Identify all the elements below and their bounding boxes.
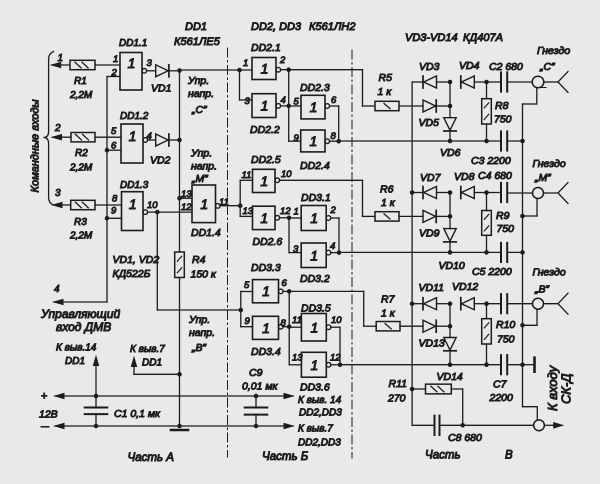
- svg-text:1: 1: [113, 54, 118, 65]
- svg-text:DD1: DD1: [185, 21, 207, 33]
- svg-text:С5 2200: С5 2200: [472, 266, 512, 278]
- svg-text:С8 680: С8 680: [448, 432, 482, 444]
- svg-text:VD7: VD7: [420, 172, 442, 184]
- svg-text:2: 2: [279, 55, 286, 66]
- svg-text:1 к: 1 к: [381, 308, 396, 320]
- svg-text:DD1: DD1: [142, 358, 162, 369]
- svg-text:„М”: „М”: [534, 172, 551, 184]
- svg-text:напр.: напр.: [189, 327, 215, 339]
- svg-text:5: 5: [111, 126, 117, 137]
- svg-text:DD2.5: DD2.5: [251, 154, 281, 166]
- svg-text:2,2М: 2,2М: [69, 163, 93, 174]
- svg-text:Часть Б: Часть Б: [262, 451, 309, 463]
- svg-text:1: 1: [129, 128, 137, 144]
- svg-text:напр.: напр.: [188, 88, 214, 100]
- svg-text:DD2.2: DD2.2: [250, 124, 280, 136]
- svg-text:3: 3: [293, 244, 299, 255]
- svg-text:R10: R10: [496, 319, 515, 331]
- svg-text:VD13: VD13: [419, 338, 445, 350]
- svg-text:К выв.7: К выв.7: [130, 344, 165, 355]
- svg-text:1: 1: [58, 53, 64, 64]
- svg-text:2,2М: 2,2М: [69, 231, 93, 242]
- svg-text:4: 4: [281, 95, 286, 106]
- svg-text:R7: R7: [381, 294, 396, 306]
- svg-text:1: 1: [310, 210, 318, 226]
- svg-text:12: 12: [181, 202, 192, 213]
- svg-text:КД522Б: КД522Б: [113, 268, 151, 280]
- svg-text:1: 1: [310, 247, 318, 263]
- svg-text:VD4: VD4: [459, 60, 480, 72]
- svg-text:750: 750: [497, 223, 515, 235]
- svg-text:С4 680: С4 680: [478, 170, 512, 182]
- svg-text:В: В: [505, 450, 513, 462]
- svg-text:4: 4: [330, 241, 335, 252]
- svg-text:13: 13: [181, 189, 192, 200]
- svg-text:R4: R4: [192, 254, 206, 266]
- svg-text:R8: R8: [495, 100, 509, 112]
- svg-text:Управляющий: Управляющий: [40, 307, 120, 321]
- svg-text:1: 1: [261, 61, 269, 77]
- svg-text:Гнездо: Гнездо: [537, 45, 570, 57]
- svg-text:12В: 12В: [39, 409, 58, 421]
- svg-text:С7: С7: [493, 379, 508, 391]
- svg-text:СК-Д: СК-Д: [559, 373, 574, 404]
- svg-text:1: 1: [243, 58, 248, 69]
- svg-text:R5: R5: [379, 72, 393, 84]
- svg-text:„В”: „В”: [191, 342, 207, 354]
- svg-text:1: 1: [309, 133, 317, 149]
- svg-text:9: 9: [111, 206, 117, 217]
- svg-text:К561ЛЕ5: К561ЛЕ5: [174, 36, 221, 48]
- svg-text:VD9: VD9: [419, 228, 440, 240]
- svg-text:9: 9: [245, 316, 251, 327]
- svg-text:напр.: напр.: [191, 161, 217, 173]
- svg-text:10: 10: [281, 169, 292, 180]
- svg-text:750: 750: [497, 334, 515, 346]
- svg-text:Гнездо: Гнездо: [533, 267, 566, 279]
- svg-text:2: 2: [54, 123, 61, 134]
- svg-text:5: 5: [244, 280, 250, 291]
- svg-text:DD1.4: DD1.4: [191, 227, 221, 239]
- svg-text:Часть: Часть: [425, 450, 461, 462]
- svg-text:1: 1: [294, 207, 299, 218]
- svg-text:VD2: VD2: [150, 155, 171, 167]
- svg-text:8: 8: [331, 131, 337, 142]
- svg-text:6: 6: [282, 278, 288, 289]
- svg-text:1: 1: [262, 320, 270, 336]
- svg-text:С1 0,1 мк: С1 0,1 мк: [114, 408, 161, 420]
- svg-text:1: 1: [262, 283, 270, 299]
- svg-text:1: 1: [128, 55, 136, 71]
- svg-text:VD8: VD8: [454, 171, 475, 183]
- svg-text:С3 2200: С3 2200: [471, 155, 511, 167]
- svg-text:R1: R1: [74, 76, 87, 87]
- svg-text:„М”: „М”: [191, 173, 208, 185]
- svg-text:К выв.14: К выв.14: [56, 343, 97, 354]
- svg-text:1: 1: [260, 210, 268, 226]
- svg-text:VD12: VD12: [452, 281, 478, 293]
- svg-text:DD3.4: DD3.4: [251, 346, 281, 358]
- svg-text:10: 10: [147, 200, 158, 211]
- svg-text:R11: R11: [389, 378, 407, 390]
- svg-text:2,2М: 2,2М: [69, 90, 93, 101]
- svg-text:VD5: VD5: [419, 117, 440, 129]
- svg-text:+: +: [41, 391, 47, 403]
- svg-text:—: —: [41, 422, 49, 431]
- svg-text:Часть А: Часть А: [128, 452, 175, 464]
- svg-text:DD2.6: DD2.6: [253, 236, 283, 248]
- svg-text:2: 2: [330, 205, 337, 216]
- svg-text:КД407А: КД407А: [463, 32, 503, 44]
- svg-text:Гнездо: Гнездо: [533, 158, 566, 170]
- svg-text:С9: С9: [249, 367, 263, 379]
- svg-text:R6: R6: [380, 184, 394, 196]
- svg-text:3: 3: [55, 188, 61, 199]
- svg-text:VD10: VD10: [439, 260, 465, 272]
- svg-text:„С”: „С”: [191, 104, 207, 116]
- svg-text:DD2.4: DD2.4: [300, 160, 330, 172]
- svg-text:Командные входы: Командные входы: [30, 99, 42, 192]
- svg-text:VD1, VD2: VD1, VD2: [113, 254, 160, 266]
- svg-text:С2 680: С2 680: [489, 61, 523, 73]
- svg-text:1: 1: [310, 99, 318, 115]
- svg-text:2200: 2200: [489, 392, 514, 404]
- svg-text:DD3.2: DD3.2: [300, 273, 330, 285]
- svg-text:VD3: VD3: [419, 61, 440, 73]
- svg-text:вход ДМВ: вход ДМВ: [56, 320, 111, 334]
- svg-text:DD1.1: DD1.1: [119, 38, 147, 49]
- svg-text:11: 11: [292, 315, 302, 326]
- svg-text:1 к: 1 к: [381, 197, 396, 209]
- svg-text:DD1.2: DD1.2: [120, 111, 149, 122]
- svg-text:DD2.1: DD2.1: [251, 42, 281, 54]
- svg-text:1: 1: [310, 319, 318, 335]
- svg-text:0,01 мк: 0,01 мк: [242, 381, 279, 393]
- svg-text:DD3.3: DD3.3: [251, 262, 281, 274]
- svg-text:150 к: 150 к: [191, 269, 217, 281]
- svg-text:1 к: 1 к: [378, 86, 393, 98]
- svg-text:10: 10: [331, 315, 342, 326]
- svg-text:DD3.6: DD3.6: [300, 382, 330, 394]
- svg-text:VD3-VD14: VD3-VD14: [405, 32, 458, 44]
- svg-text:VD1: VD1: [151, 83, 171, 95]
- svg-text:VD14: VD14: [437, 371, 463, 383]
- svg-text:1: 1: [129, 196, 137, 212]
- svg-text:13: 13: [243, 206, 254, 217]
- svg-text:9: 9: [294, 133, 300, 144]
- svg-text:DD2,DD3: DD2,DD3: [299, 408, 342, 419]
- svg-text:DD3.1: DD3.1: [301, 192, 331, 204]
- svg-text:DD2, DD3: DD2, DD3: [251, 21, 302, 33]
- svg-text:К выв.7: К выв.7: [298, 424, 333, 435]
- svg-text:К выв. 14: К выв. 14: [298, 395, 342, 406]
- svg-text:3: 3: [245, 96, 251, 107]
- svg-text:6: 6: [331, 95, 337, 106]
- svg-text:11: 11: [242, 170, 252, 181]
- svg-text:R9: R9: [496, 210, 510, 222]
- svg-text:12: 12: [280, 206, 291, 217]
- svg-text:1: 1: [200, 196, 208, 212]
- svg-text:Упр.: Упр.: [190, 148, 212, 160]
- svg-text:270: 270: [387, 393, 406, 405]
- svg-text:R2: R2: [75, 148, 88, 159]
- svg-text:„В”: „В”: [534, 284, 550, 296]
- svg-text:VD11: VD11: [419, 282, 445, 294]
- svg-text:DD1: DD1: [65, 356, 85, 367]
- svg-text:„С”: „С”: [539, 61, 555, 73]
- svg-text:DD1.3: DD1.3: [120, 180, 149, 191]
- svg-text:1: 1: [310, 357, 318, 373]
- svg-text:DD2.3: DD2.3: [300, 82, 330, 94]
- svg-text:R3: R3: [74, 217, 87, 228]
- svg-text:VD6: VD6: [440, 147, 461, 159]
- svg-text:К561ЛН2: К561ЛН2: [309, 21, 355, 33]
- svg-text:Упр.: Упр.: [187, 75, 209, 87]
- svg-text:DD2,DD3: DD2,DD3: [298, 438, 341, 449]
- svg-text:1: 1: [260, 173, 268, 189]
- svg-text:DD3.5: DD3.5: [301, 303, 331, 315]
- svg-text:3: 3: [147, 58, 153, 69]
- svg-text:750: 750: [494, 114, 512, 126]
- svg-text:4: 4: [54, 284, 60, 295]
- svg-text:13: 13: [292, 353, 303, 364]
- svg-text:8: 8: [112, 194, 118, 205]
- svg-text:Упр.: Упр.: [188, 314, 210, 326]
- svg-text:1: 1: [261, 98, 269, 114]
